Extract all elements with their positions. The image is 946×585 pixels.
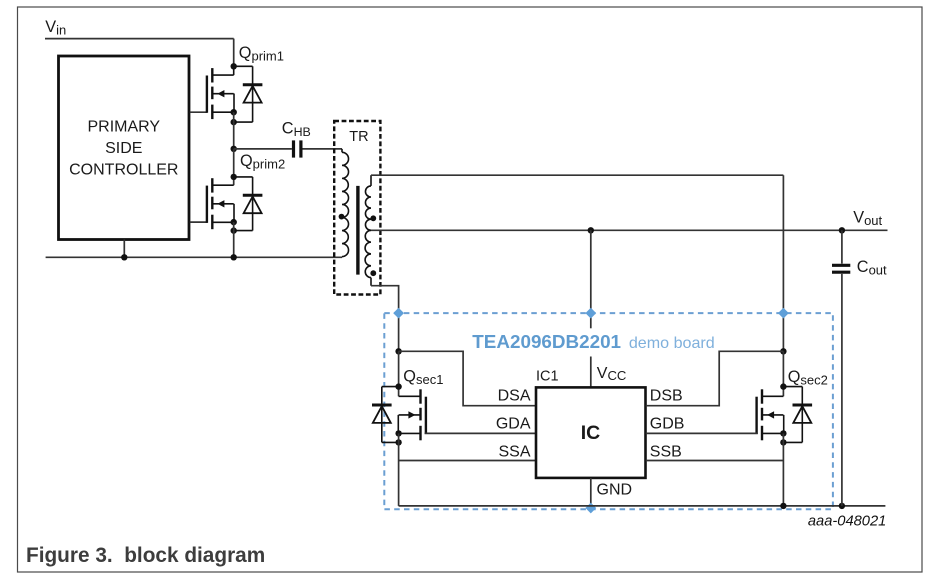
transistor Qsec1	[399, 389, 426, 440]
node Cout tap junction	[839, 227, 845, 233]
svg-text:Vin: Vin	[45, 18, 66, 38]
node half-bridge junction	[231, 146, 237, 152]
diode Qsec1 body diode	[372, 387, 399, 443]
svg-text:Qsec1: Qsec1	[403, 368, 443, 388]
node Qsec2 source ground junction	[780, 503, 786, 509]
node demo board entry diamond VCC	[585, 308, 596, 319]
node primary winding polarity dot	[339, 214, 345, 220]
wire primary winding bottom stub	[341, 256, 343, 259]
svg-text:PRIMARY: PRIMARY	[87, 119, 160, 136]
svg-text:GDA: GDA	[496, 416, 531, 433]
node Qsec2 source junction	[780, 430, 786, 436]
node Qsec2 drain junction	[780, 383, 786, 389]
block PRIMARY SIDE CONTROLLER	[59, 56, 190, 240]
demo board TEA2096DB2201 dashed boundary	[384, 313, 833, 509]
wire Vin down to Qprim1 drain	[233, 39, 235, 67]
wire half-bridge down to Qprim2 drain	[233, 149, 235, 185]
svg-text:Vout: Vout	[853, 208, 882, 228]
wire Qprim1 body-source vertical	[233, 94, 235, 113]
wire Cout top branch	[841, 230, 843, 263]
node VCC tap junction	[588, 227, 594, 233]
node primary return junction	[231, 254, 237, 260]
wire DSA sense path	[399, 351, 536, 405]
wire Qsec2 rail top segment	[782, 175, 784, 351]
node controller ground junction	[121, 254, 127, 260]
diode Qprim1 body diode	[234, 66, 263, 122]
wire secondary top lead up	[370, 175, 372, 186]
capacitor Cout	[832, 265, 850, 272]
svg-text:TR: TR	[349, 129, 368, 145]
svg-text:Cout: Cout	[857, 258, 887, 278]
node Qprim2 diode anode junction	[231, 227, 237, 233]
svg-text:IC1: IC1	[536, 369, 559, 385]
wire Vin horizontal	[45, 38, 234, 40]
node secondary upper polarity dot	[370, 215, 376, 221]
svg-text:GDB: GDB	[650, 416, 685, 433]
wire SSB sense	[646, 460, 784, 462]
node Cout ground junction	[839, 503, 845, 509]
wire secondary bottom lead down	[370, 278, 372, 286]
transformer core bar	[356, 186, 359, 275]
svg-text:DSB: DSB	[650, 387, 683, 404]
wire Qsec1 source down to ground rail	[398, 433, 400, 506]
wire Qsec1 body-source vertical	[397, 415, 399, 434]
svg-text:DSA: DSA	[498, 387, 531, 404]
svg-text:SIDE: SIDE	[105, 140, 142, 157]
wire Qprim2 body-source vertical	[233, 204, 235, 222]
wire secondary ground rail	[399, 505, 886, 507]
diode Qsec2 body diode	[783, 387, 812, 443]
wire center tap Vout horizontal	[371, 229, 888, 231]
wire half-bridge to CHB	[234, 148, 292, 150]
wire controller ground stub	[123, 240, 125, 258]
node DSA tap junction	[395, 348, 401, 354]
svg-text:Qsec2: Qsec2	[788, 368, 828, 388]
wire gate lead Qprim1 from controller	[190, 111, 207, 113]
wire primary winding top stub	[341, 149, 343, 152]
node Qprim1 diode anode junction	[231, 119, 237, 125]
svg-text:SSB: SSB	[650, 443, 682, 460]
wire Qsec2 source down to ground rail	[782, 433, 784, 506]
node demo board entry diamond left	[393, 308, 404, 319]
wire CHB to transformer primary	[303, 148, 343, 150]
svg-text:CONTROLLER: CONTROLLER	[69, 161, 178, 178]
op-amp U1 IC block	[536, 387, 646, 478]
node Qsec1 diode anode junction	[395, 439, 401, 445]
capacitor CHB	[294, 140, 301, 157]
node Qsec1 source junction	[395, 430, 401, 436]
node Qprim2 source junction	[231, 219, 237, 225]
wire DSB sense path	[646, 351, 784, 405]
svg-text:Qprim2: Qprim2	[240, 152, 285, 172]
svg-text:GND: GND	[597, 481, 633, 498]
node Qsec2 diode anode junction	[780, 439, 786, 445]
wire Qsec1 rail drain segment	[398, 351, 400, 396]
svg-text:Figure 3. block diagram: Figure 3. block diagram	[26, 544, 265, 567]
wire Qprim1 drain stub	[233, 66, 235, 75]
svg-text:TEA2096DB2201demo board: TEA2096DB2201demo board	[472, 331, 714, 352]
node demo board entry diamond right	[778, 308, 789, 319]
wire GDA gate lead	[425, 432, 536, 434]
svg-text:Qprim1: Qprim1	[239, 44, 284, 64]
svg-text:CHB: CHB	[282, 120, 311, 139]
wire secondary bottom elbow	[371, 286, 399, 352]
transformer TR dashed outline	[334, 121, 380, 295]
node demo board GND diamond	[585, 503, 596, 514]
diode Qprim2 body diode	[234, 177, 263, 231]
wire secondary top horizontal to Qsec2	[371, 174, 783, 176]
wire GDB gate lead	[646, 432, 758, 434]
transformer secondary winding upper	[365, 186, 371, 230]
svg-text:SSA: SSA	[498, 443, 530, 460]
wire gate lead Qprim2 from controller	[190, 221, 207, 223]
wire Cout bottom branch	[841, 274, 843, 506]
wire Qprim1 source down to half-bridge node	[233, 112, 235, 149]
transformer primary winding	[342, 152, 349, 256]
svg-text:IC: IC	[581, 422, 601, 444]
svg-text:VCC: VCC	[597, 365, 627, 383]
wire SSA sense	[399, 460, 536, 462]
svg-text:aaa-048021: aaa-048021	[808, 513, 886, 529]
node DSB tap junction	[780, 348, 786, 354]
node Qsec1 drain junction	[395, 383, 401, 389]
transistor Qsec2	[757, 389, 784, 440]
wire primary return rail	[46, 256, 342, 258]
wire Qsec2 body-source vertical	[783, 415, 785, 434]
demo board title TEA2096DB2201 demo board	[469, 328, 717, 356]
transistor Qprim1	[207, 68, 234, 119]
wire GND pin down	[590, 478, 592, 506]
wire Qsec2 rail drain segment	[782, 351, 784, 396]
wire VCC supply from Vout	[590, 230, 592, 387]
node Qprim1 source junction	[231, 109, 237, 115]
transistor Qprim2	[207, 178, 234, 229]
wire Qprim2 source down to primary return rail	[233, 222, 235, 257]
node secondary lower polarity dot	[370, 270, 376, 276]
node Qprim1 drain junction	[231, 63, 237, 69]
node Qprim2 drain junction	[231, 174, 237, 180]
transformer secondary winding lower	[365, 230, 371, 277]
